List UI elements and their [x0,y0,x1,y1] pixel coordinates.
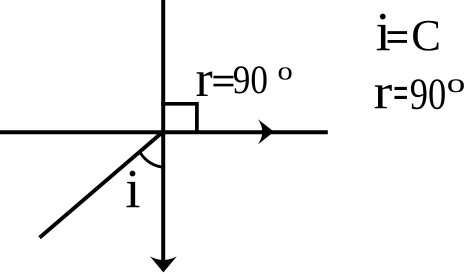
interface line (horizontal) [0,130,328,134]
svg-text:90: 90 [410,69,447,118]
svg-text:o: o [278,57,293,86]
incident ray (diagonal) [40,130,165,237]
svg-text:C: C [411,10,441,60]
svg-text:r: r [374,65,393,120]
right-angle square marker [161,104,197,134]
svg-text:=: = [386,14,409,62]
normal line (vertical) [161,0,165,263]
arrowhead on refracted ray [258,119,274,144]
svg-text:i: i [125,158,140,219]
svg-text:=: = [212,59,235,103]
arrowhead bottom of normal [150,256,177,272]
angle i arc [140,153,164,167]
svg-text:o: o [447,68,466,98]
svg-text:=: = [394,68,408,117]
svg-text:r: r [196,51,213,108]
svg-text:90: 90 [233,58,268,103]
